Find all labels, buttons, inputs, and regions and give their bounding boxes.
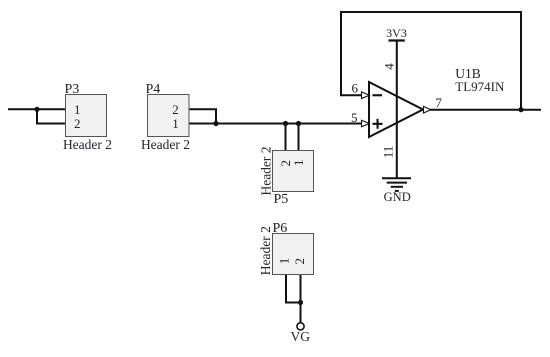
svg-text:P3: P3 bbox=[65, 82, 80, 97]
svg-text:11: 11 bbox=[381, 146, 396, 159]
svg-text:3V3: 3V3 bbox=[386, 26, 407, 40]
svg-text:2: 2 bbox=[292, 258, 307, 265]
svg-text:Header 2: Header 2 bbox=[258, 226, 273, 275]
svg-text:4: 4 bbox=[381, 63, 396, 70]
svg-text:GND: GND bbox=[384, 190, 411, 204]
svg-text:1: 1 bbox=[74, 102, 81, 117]
svg-text:P4: P4 bbox=[146, 82, 161, 97]
svg-text:7: 7 bbox=[435, 95, 442, 110]
svg-text:5: 5 bbox=[351, 110, 358, 125]
svg-text:6: 6 bbox=[352, 80, 359, 95]
svg-text:1: 1 bbox=[172, 116, 179, 131]
svg-text:2: 2 bbox=[172, 102, 179, 117]
svg-text:TL974IN: TL974IN bbox=[455, 79, 505, 94]
svg-text:Header 2: Header 2 bbox=[258, 146, 273, 195]
svg-text:VG: VG bbox=[291, 329, 311, 344]
svg-text:Header 2: Header 2 bbox=[141, 137, 190, 152]
svg-text:P5: P5 bbox=[274, 192, 289, 207]
svg-text:Header 2: Header 2 bbox=[63, 137, 112, 152]
svg-text:2: 2 bbox=[74, 116, 81, 131]
svg-text:P6: P6 bbox=[273, 221, 288, 236]
svg-text:1: 1 bbox=[277, 258, 292, 265]
svg-text:1: 1 bbox=[291, 160, 306, 167]
